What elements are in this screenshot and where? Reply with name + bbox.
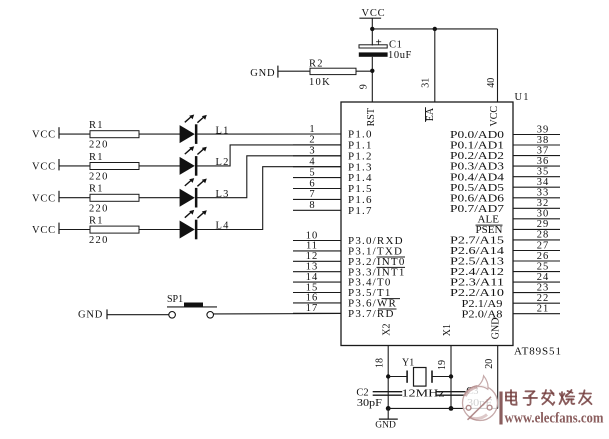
ground terminal GND (R2) <box>250 66 278 80</box>
svg-text:R1: R1 <box>89 152 104 163</box>
power VCC terminal (row L4) <box>32 223 59 237</box>
resistor R1 220 (row L4) <box>89 216 139 247</box>
capacitor C3 30pF <box>436 386 492 409</box>
ground terminal GND (SP1) <box>78 309 107 320</box>
pin 11 stub <box>293 241 341 252</box>
svg-text:18: 18 <box>375 358 386 368</box>
svg-text:VCC: VCC <box>32 225 56 236</box>
power VCC (top) <box>359 8 385 19</box>
svg-text:36: 36 <box>537 156 550 167</box>
pin 24 stub <box>513 272 560 283</box>
svg-text:16: 16 <box>306 293 319 304</box>
svg-text:VCC: VCC <box>32 193 56 204</box>
svg-text:10uF: 10uF <box>388 50 412 61</box>
wire VCC to R1 (row L2) <box>59 165 90 167</box>
svg-text:24: 24 <box>537 272 550 283</box>
pin 10 stub <box>293 230 341 241</box>
wire X2 pin18 <box>386 346 391 411</box>
wire R1 to LED L2 <box>139 165 180 167</box>
LED L4 <box>180 210 207 239</box>
svg-text:10: 10 <box>306 230 319 241</box>
svg-text:15: 15 <box>306 282 319 293</box>
wire GND to R2 <box>278 70 310 72</box>
wire R1 to LED L4 <box>139 229 180 231</box>
LED L3 <box>180 178 207 207</box>
pin label P3.3/INT1 (active low) <box>348 266 406 278</box>
wire LED L4 to pin 4 <box>197 167 341 230</box>
ground symbol GND <box>375 408 398 430</box>
wire GND pin20 <box>497 346 499 409</box>
svg-text:www.elecfans.com: www.elecfans.com <box>505 410 604 426</box>
svg-text:9: 9 <box>359 84 370 89</box>
junction node EA branch <box>433 27 437 31</box>
svg-text:5: 5 <box>309 167 314 178</box>
pin 30 stub <box>513 209 560 220</box>
resistor R1 220 (row L1) <box>89 120 139 151</box>
svg-text:17: 17 <box>306 303 319 314</box>
wire VCC to R1 (row L3) <box>59 197 90 199</box>
pin 27 stub <box>513 240 560 251</box>
svg-text:13: 13 <box>306 262 319 273</box>
wire R1 to LED L1 <box>139 133 180 135</box>
pin label P3.7/RD (active low) <box>348 308 397 320</box>
pin label P3.6/WR (active low) <box>348 298 400 310</box>
wire LED L3 to pin 3 <box>197 156 341 198</box>
power VCC terminal (row L2) <box>32 159 59 173</box>
wire C1 to RST <box>371 57 373 102</box>
svg-text:VCC: VCC <box>362 8 386 19</box>
capacitor C1 <box>359 36 412 61</box>
pin 12 stub <box>293 251 341 262</box>
svg-text:20: 20 <box>484 359 495 369</box>
svg-text:31: 31 <box>420 78 431 88</box>
svg-text:X1: X1 <box>442 324 453 336</box>
svg-text:R1: R1 <box>89 184 104 195</box>
svg-text:12: 12 <box>306 251 319 262</box>
switch SP1 <box>167 294 217 318</box>
power VCC terminal (row L3) <box>32 191 59 205</box>
pin 8 stub <box>293 200 341 211</box>
wire VCC to C1 <box>371 18 373 45</box>
LED L1 <box>180 115 207 144</box>
pin 36 stub <box>513 156 560 167</box>
svg-text:19: 19 <box>437 360 448 370</box>
svg-text:220: 220 <box>89 203 109 214</box>
pin 25 stub <box>513 261 560 272</box>
wire R1 to LED L3 <box>139 197 180 199</box>
pin 3 stub <box>293 146 341 157</box>
svg-text:SP1: SP1 <box>167 294 183 305</box>
pin 35 stub <box>513 167 560 178</box>
wire Y1 to X1 <box>432 376 451 378</box>
svg-text:Y1: Y1 <box>402 357 414 368</box>
svg-text:VCC: VCC <box>32 130 56 141</box>
pin 1 stub <box>293 124 341 135</box>
pin 4 stub <box>293 157 341 168</box>
svg-text:L1: L1 <box>216 125 230 136</box>
svg-text:38: 38 <box>537 135 550 146</box>
wire R2 to RST node <box>356 70 372 72</box>
svg-text:RST: RST <box>366 108 377 126</box>
pin 6 stub <box>293 178 341 189</box>
svg-text:2: 2 <box>309 135 314 146</box>
wire GND to SP1 <box>107 314 169 316</box>
svg-text:12MHz: 12MHz <box>402 388 445 400</box>
pin label P3.2/INT0 (active low) <box>348 256 406 268</box>
wire SP1 to pin 17 <box>214 313 342 315</box>
svg-text:35: 35 <box>537 167 550 178</box>
svg-text:37: 37 <box>537 145 550 156</box>
pin 33 stub <box>513 188 560 199</box>
op chip U1 AT89S51 body <box>341 102 513 346</box>
svg-text:6: 6 <box>309 178 314 189</box>
svg-text:32: 32 <box>537 198 550 209</box>
svg-text:29: 29 <box>537 219 550 230</box>
svg-text:30pF: 30pF <box>357 398 382 409</box>
svg-text:11: 11 <box>306 241 318 252</box>
pin 14 stub <box>293 272 341 283</box>
svg-text:P1.7: P1.7 <box>348 205 373 217</box>
wire ground rail <box>388 407 498 409</box>
svg-text:21: 21 <box>537 304 550 315</box>
wire X1 pin19 <box>449 346 454 411</box>
pin 34 stub <box>513 177 560 188</box>
pin 22 stub <box>513 293 560 304</box>
pin 2 stub <box>293 135 341 146</box>
pin 16 stub <box>293 293 341 304</box>
junction node RST/R2 <box>370 69 374 73</box>
svg-text:X2: X2 <box>381 323 392 335</box>
svg-text:U1: U1 <box>515 92 530 103</box>
svg-text:VCC: VCC <box>489 106 500 127</box>
crystal Y1 12MHz <box>402 357 445 399</box>
wire VCC rail to pin40 branch <box>370 27 497 31</box>
svg-text:VCC: VCC <box>32 162 56 173</box>
svg-text:220: 220 <box>89 172 109 183</box>
svg-text:220: 220 <box>89 140 109 151</box>
pin 23 stub <box>513 282 560 293</box>
pin name EA (active low) <box>425 107 436 122</box>
svg-text:25: 25 <box>537 261 550 272</box>
svg-text:L2: L2 <box>216 157 230 168</box>
svg-text:P2.0/A8: P2.0/A8 <box>462 308 504 320</box>
pin 21 stub <box>513 304 560 315</box>
pin label PSEN (active low) <box>476 224 503 236</box>
wire LED L2 to pin 2 <box>197 145 341 166</box>
svg-text:4: 4 <box>309 157 315 168</box>
pin 26 stub <box>513 251 560 262</box>
svg-text:40: 40 <box>486 78 497 88</box>
pin 15 stub <box>293 282 341 293</box>
svg-text:AT89S51: AT89S51 <box>514 346 562 358</box>
pin 37 stub <box>513 145 560 156</box>
svg-text:22: 22 <box>537 293 550 304</box>
power VCC terminal (row L1) <box>32 127 59 141</box>
pin 17 stub <box>293 303 341 314</box>
svg-text:R2: R2 <box>309 58 324 69</box>
pin 7 stub <box>293 189 341 200</box>
capacitor C2 30pF <box>356 388 402 409</box>
svg-text:27: 27 <box>537 240 550 251</box>
svg-text:8: 8 <box>309 200 314 211</box>
svg-text:3: 3 <box>309 146 314 157</box>
svg-text:10K: 10K <box>309 77 331 88</box>
svg-text:P3.7/RD: P3.7/RD <box>348 308 395 320</box>
pin 28 stub <box>513 230 560 241</box>
svg-text:GND: GND <box>250 68 275 79</box>
pin 5 stub <box>293 167 341 178</box>
pin 29 stub <box>513 219 560 230</box>
pin 32 stub <box>513 198 560 209</box>
svg-text:26: 26 <box>537 251 550 262</box>
pin 39 stub <box>513 124 560 135</box>
svg-text:C2: C2 <box>356 388 368 399</box>
svg-text:GND: GND <box>490 318 501 340</box>
LED L2 <box>180 146 207 175</box>
svg-text:+: + <box>376 36 382 48</box>
svg-text:28: 28 <box>537 230 550 241</box>
svg-text:30: 30 <box>537 209 550 220</box>
svg-text:GND: GND <box>375 421 396 431</box>
svg-text:23: 23 <box>537 282 550 293</box>
svg-text:GND: GND <box>78 309 103 320</box>
wire VCC to R1 (row L4) <box>59 229 90 231</box>
resistor R1 220 (row L2) <box>89 152 139 183</box>
svg-text:C1: C1 <box>389 40 402 51</box>
wire VCC pin40 <box>497 29 499 102</box>
svg-text:1: 1 <box>309 124 314 135</box>
svg-text:R1: R1 <box>89 216 104 227</box>
svg-text:R1: R1 <box>89 120 104 131</box>
svg-text:220: 220 <box>89 235 109 246</box>
svg-text:7: 7 <box>309 189 314 200</box>
pin 13 stub <box>293 262 341 273</box>
svg-text:34: 34 <box>537 177 550 188</box>
svg-text:14: 14 <box>306 272 319 283</box>
resistor R2 10K <box>309 58 356 88</box>
pin 38 stub <box>513 135 560 146</box>
wire VCC to R1 (row L1) <box>59 133 90 135</box>
svg-text:39: 39 <box>537 124 550 135</box>
resistor R1 220 (row L3) <box>89 184 139 215</box>
wire LED L1 to pin 1 <box>197 133 341 135</box>
svg-text:33: 33 <box>537 188 550 199</box>
wire X2 to Y1 <box>388 376 407 378</box>
wire EA pin31 <box>434 29 436 102</box>
svg-text:EA: EA <box>425 107 436 121</box>
